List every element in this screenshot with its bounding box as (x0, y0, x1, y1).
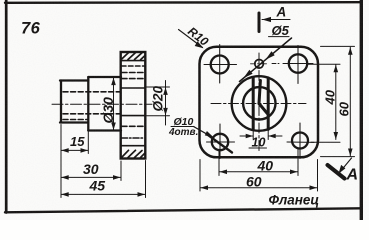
dim 10 slot: extension lines (253, 131, 268, 140)
front view: clock hand lower right (259, 104, 269, 116)
extension line plate right bottom (145, 161, 147, 198)
dim 15 (61, 148, 88, 153)
bottom dim 60: extension lines (200, 160, 318, 192)
side view: hatch top band (122, 53, 145, 60)
right dim 60 (348, 47, 353, 156)
section mark bottom: arrow (339, 158, 352, 174)
dim 45 (61, 192, 145, 197)
section mark bottom: thick bar (328, 165, 345, 179)
dim D30 line with arrows (111, 78, 116, 130)
border top (5, 1, 361, 4)
front view: hole bottom-right (287, 123, 314, 159)
section mark top: letter A (276, 5, 287, 20)
label D5 text (272, 23, 290, 38)
dim 45 text (89, 178, 106, 194)
front view: boss outer circle D30 (232, 76, 287, 131)
dim 15 text (70, 134, 85, 149)
dim D20 line with arrows (163, 81, 168, 126)
extension line step (87, 125, 89, 154)
bottom dim 60 text (246, 174, 262, 190)
label 76 (21, 20, 41, 38)
side view: hatch bottom band (122, 150, 145, 157)
section mark bottom: letter A (346, 166, 359, 183)
front view: small hole cross (251, 63, 269, 65)
side view: flange plate outline (121, 52, 146, 159)
border bottom (5, 208, 361, 212)
front view: clock hand up (259, 81, 260, 104)
front view: small hole D5 (255, 60, 264, 69)
right dim 40 (334, 65, 339, 140)
dim D20 extension lines (146, 87, 170, 116)
dim 10 slot: dimension line with outside arrows (240, 134, 282, 139)
label R10 text (185, 24, 211, 49)
section mark top: thick bar (258, 13, 261, 32)
dim 30 text (83, 161, 99, 177)
extension line stub left (60, 125, 62, 198)
title Flanec (269, 192, 320, 207)
side view: plate internal lines bottom (122, 116, 145, 146)
section mark top: arrow (262, 17, 290, 22)
front view: center line vertical (258, 53, 260, 151)
side view: plate internal lines top (122, 61, 145, 88)
label D10 4otv text (168, 116, 198, 138)
side view: D30 cylinder outline (88, 77, 121, 131)
side view: step face line (87, 77, 89, 131)
dim 30 (61, 175, 120, 180)
right dim 60: extension lines (321, 46, 355, 156)
border right (360, 0, 363, 220)
front view: hole bottom-left (207, 124, 235, 159)
border left (5, 0, 8, 213)
label D10 underline (171, 126, 194, 128)
front view: slot line left (252, 78, 255, 130)
front view: hole top-right (283, 46, 313, 84)
paper noise overlay (0, 0, 1, 1)
bottom dim 60 (201, 185, 318, 190)
bottom dim 40 (220, 170, 298, 175)
front view: axis dash left of top-right hole (272, 63, 279, 65)
extension line plate left bottom (120, 161, 122, 181)
right dim 40: extension lines (308, 64, 340, 142)
label R10 leader (179, 30, 204, 49)
side view: stub outline (60, 81, 88, 123)
front view: bore circle D20 (243, 87, 275, 119)
dim D30 text (100, 97, 116, 124)
bottom dim 40 text (257, 157, 274, 173)
bottom dim 40: extension lines (219, 149, 298, 176)
front view: slot line right (267, 78, 270, 129)
side view: bore hidden lines (63, 92, 120, 120)
front view: plate outline (200, 47, 319, 158)
dim 10 slot: text with underline (252, 136, 266, 150)
right dim 40 text (323, 89, 338, 105)
label D5 leader with two arrowheads (240, 38, 292, 82)
label D5 underline (269, 36, 290, 38)
label D10 leader with arrow through hole (194, 127, 233, 153)
dim D20 text (151, 85, 166, 111)
front view: center line horizontal (211, 103, 306, 105)
front view: hole top-left (204, 45, 237, 84)
right dim 60 text (337, 101, 352, 116)
side view: axis line (52, 103, 152, 105)
